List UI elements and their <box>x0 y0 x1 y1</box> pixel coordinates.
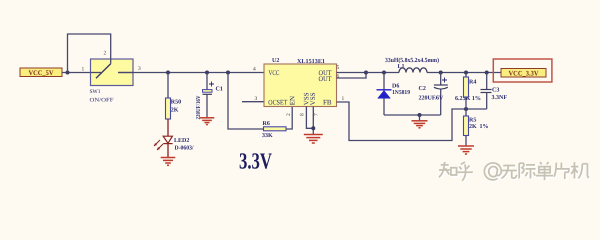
node junction FB divider <box>464 107 468 111</box>
svg-text:220UF/: 220UF/ <box>419 96 438 102</box>
svg-text:LED2: LED2 <box>174 138 189 144</box>
node junction at loop takeoff <box>66 71 70 75</box>
svg-text:VCC_5V: VCC_5V <box>29 69 54 77</box>
LED2 <box>154 136 194 151</box>
svg-text:33uH(5.8x5.2x4.5mm): 33uH(5.8x5.2x4.5mm) <box>385 57 439 64</box>
svg-text:3.3V: 3.3V <box>239 149 272 174</box>
svg-text:33K: 33K <box>262 133 273 139</box>
ground (VSS) <box>304 135 323 144</box>
svg-text:C3: C3 <box>492 88 499 94</box>
svg-text:2: 2 <box>286 113 292 116</box>
ground (LED) <box>161 158 176 166</box>
svg-text:OUT: OUT <box>319 75 333 83</box>
OCSET stub wire <box>242 101 264 103</box>
svg-text:7: 7 <box>314 113 320 116</box>
svg-text:3: 3 <box>138 66 141 72</box>
node junction C1 <box>205 71 209 75</box>
wire R50 drop <box>167 73 169 99</box>
wire OUT pins join <box>337 73 367 79</box>
wire OUT rail to L1 <box>366 72 399 74</box>
resistor R6 <box>262 121 286 139</box>
wire VSS pins to ground <box>306 107 313 135</box>
svg-text:3.3NF: 3.3NF <box>492 95 508 101</box>
svg-text:VSS: VSS <box>309 92 317 105</box>
node junction OUT <box>364 71 368 75</box>
resistor R4 <box>455 71 481 110</box>
node junction VSS <box>311 126 315 130</box>
svg-text:ON/OFF: ON/OFF <box>90 97 114 103</box>
svg-text:220UF/16V: 220UF/16V <box>196 95 202 120</box>
svg-text:2K: 2K <box>469 124 477 130</box>
svg-text:R4: R4 <box>469 80 476 86</box>
node junction D6 <box>382 71 386 75</box>
wire loop over switch <box>68 34 111 73</box>
resistor R50 <box>166 98 182 119</box>
resistor R5 <box>464 109 489 146</box>
svg-text:4: 4 <box>253 67 256 73</box>
diode D6 1N5819 <box>377 73 411 116</box>
svg-text:XL1513E1: XL1513E1 <box>297 59 325 65</box>
inductor L1 <box>385 57 439 73</box>
ground (C1) <box>200 118 215 125</box>
svg-text:OCSET: OCSET <box>268 99 288 107</box>
svg-text:SW1: SW1 <box>90 89 101 95</box>
svg-text:2K: 2K <box>171 108 179 114</box>
wire ground rail D6 to C2 <box>384 114 441 116</box>
IC U2 XL1513E1 buck regulator <box>264 58 337 107</box>
svg-text:R50: R50 <box>171 100 181 106</box>
wire gnd stem <box>419 115 421 121</box>
switch SW1 <box>90 59 134 104</box>
node junction R50 <box>166 71 170 75</box>
node junction R6 drop <box>226 71 230 75</box>
node junction gnd rail <box>418 113 422 117</box>
svg-text:3: 3 <box>255 96 258 102</box>
capacitor C2 <box>419 71 448 116</box>
power port VCC_5V <box>20 68 62 77</box>
wire R6 to EN pin <box>286 107 292 130</box>
svg-text:5: 5 <box>337 65 340 71</box>
svg-text:FB: FB <box>323 99 332 107</box>
power port VCC_3.3V with red highlight box <box>493 59 552 82</box>
wire C1 drop <box>206 73 208 90</box>
svg-text:8: 8 <box>300 113 306 116</box>
wire R50 to LED (red) <box>167 119 169 136</box>
svg-text:1: 1 <box>82 67 85 73</box>
svg-text:U2: U2 <box>272 58 279 64</box>
wire FB net <box>337 102 487 141</box>
wire R6/EN drop from rail <box>228 73 264 130</box>
svg-text:6V: 6V <box>436 96 444 102</box>
svg-text:EN: EN <box>289 96 297 105</box>
svg-text:R6: R6 <box>263 121 270 127</box>
svg-text:1N5819: 1N5819 <box>392 90 410 96</box>
capacitor C3 <box>481 71 508 110</box>
wire C1 to ground <box>206 94 208 118</box>
svg-text:2: 2 <box>104 51 107 57</box>
svg-text:L1: L1 <box>398 64 405 70</box>
svg-text:VCC_3.3V: VCC_3.3V <box>509 69 539 77</box>
svg-text:C2: C2 <box>419 86 426 92</box>
wire LED to ground (red) <box>167 144 169 157</box>
wire main rail left: label to switch <box>62 72 101 74</box>
wire main rail: switch to chip pin 4 <box>118 72 264 74</box>
svg-text:VCC: VCC <box>269 69 280 77</box>
wire L1 to output rail <box>427 72 501 74</box>
ground (C2/D6) <box>412 121 428 128</box>
capacitor C1 <box>196 82 223 120</box>
svg-text:D-0603/: D-0603/ <box>175 146 194 152</box>
ground (R5) <box>458 146 474 154</box>
svg-text:D6: D6 <box>392 84 399 90</box>
svg-text:C1: C1 <box>216 87 223 93</box>
svg-text:R5: R5 <box>469 118 476 124</box>
svg-text:1%: 1% <box>480 124 489 130</box>
svg-text:1: 1 <box>342 96 345 102</box>
